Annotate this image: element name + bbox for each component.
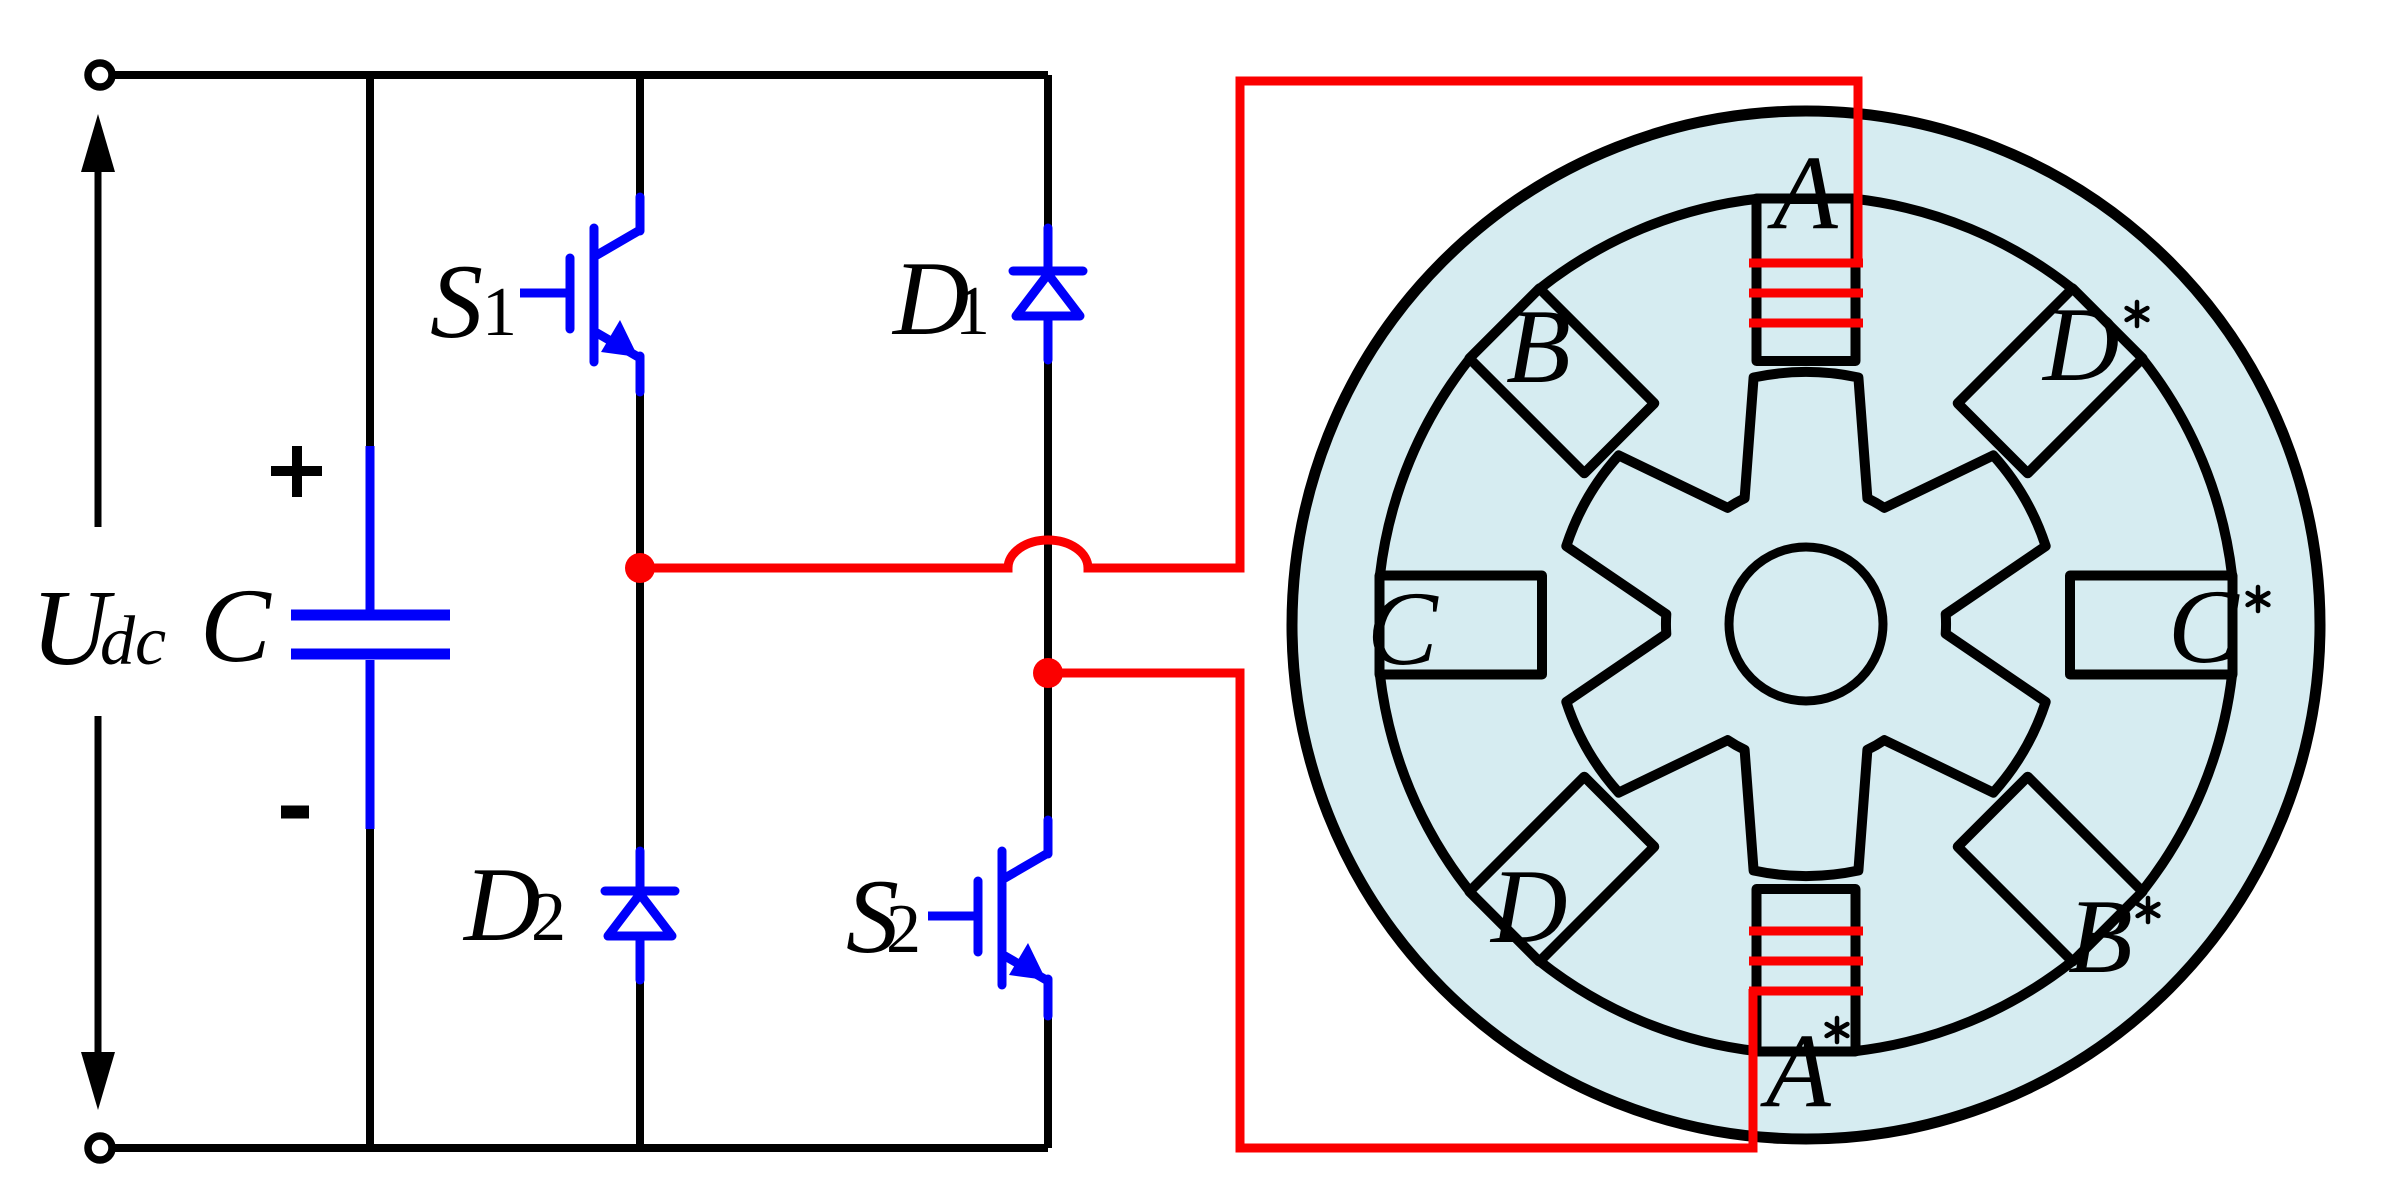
svg-text:B: B	[2068, 878, 2133, 995]
stator pole A*	[1757, 889, 1856, 1052]
asterisk of D*	[2127, 302, 2148, 326]
asterisk of B*	[2138, 898, 2159, 922]
wire D1 branch top	[1044, 75, 1052, 229]
plus sign	[271, 446, 322, 497]
minus sign	[281, 806, 309, 819]
svg-text:dc: dc	[100, 603, 166, 680]
svg-text:A: A	[1767, 134, 1839, 251]
svg-text:D: D	[1489, 848, 1568, 965]
svg-text:1: 1	[955, 273, 990, 350]
transistor S1 (IGBT)	[520, 197, 640, 392]
rotor	[1566, 372, 2045, 876]
terminal top-left	[88, 63, 112, 87]
node 1 junction	[625, 553, 655, 583]
wire phase top (node1 to coil A)	[640, 81, 1858, 568]
stator pole C*	[2070, 576, 2233, 675]
wire D1-to-S2 segment	[1044, 359, 1052, 821]
svg-text:C: C	[1367, 570, 1439, 687]
Udc dimension arrow	[81, 114, 115, 1110]
capacitor C	[291, 446, 450, 829]
diode D2	[605, 851, 675, 980]
wire top rail	[100, 71, 1048, 79]
stator yoke inner arcs	[1380, 199, 2232, 1051]
terminal bottom-left	[88, 1136, 112, 1160]
wire phase bottom (node2 to coil A*)	[1048, 673, 1753, 1148]
asterisk of A*	[1827, 1018, 1848, 1042]
coil A* winding bars	[1749, 931, 1863, 991]
wire S2-to-rail segment	[1044, 1015, 1052, 1148]
svg-text:D: D	[462, 846, 541, 963]
svg-text:C: C	[200, 567, 272, 684]
svg-text:C: C	[2168, 568, 2240, 685]
wire S1-to-node segment	[636, 391, 644, 852]
svg-text:D: D	[2041, 286, 2120, 403]
stator pole D	[1469, 777, 1654, 962]
rotor shaft	[1729, 547, 1883, 701]
svg-text:S: S	[430, 243, 483, 360]
stator pole A	[1757, 199, 1856, 362]
svg-text:2: 2	[531, 879, 566, 956]
asterisk of C*	[2248, 587, 2269, 611]
stator pole B*	[1958, 777, 2143, 962]
stator pole D*	[1958, 288, 2143, 473]
stator outer circle	[1292, 111, 2320, 1139]
wire D2-to-rail segment	[636, 979, 644, 1148]
wire capacitor branch lower	[366, 827, 374, 1148]
stator pole C	[1380, 576, 1543, 675]
svg-text:1: 1	[482, 274, 517, 351]
node 2 junction	[1033, 658, 1063, 688]
svg-text:A: A	[1760, 1012, 1832, 1129]
wire capacitor branch upper	[366, 75, 374, 446]
stator pole B	[1469, 288, 1654, 473]
svg-text:2: 2	[886, 891, 921, 968]
svg-text:B: B	[1506, 288, 1571, 405]
coil A winding bars	[1749, 263, 1863, 323]
wire S1 branch top	[636, 75, 644, 198]
diode D1	[1013, 228, 1083, 360]
transistor S2 (IGBT)	[928, 820, 1048, 1016]
wire bottom rail	[100, 1144, 1048, 1152]
